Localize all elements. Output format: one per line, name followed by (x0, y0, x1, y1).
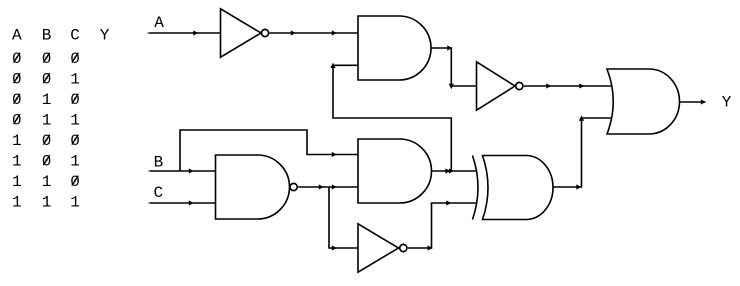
wire NOT3 out to XOR bottom input (408, 203, 477, 248)
wire A input (148, 32, 221, 34)
truth table header (12, 27, 110, 212)
arrow on wire A (193, 30, 198, 35)
svg-text:1: 1 (70, 194, 80, 212)
svg-text:1: 1 (12, 173, 22, 191)
svg-text:B: B (154, 153, 164, 171)
wire NAND out to AND2 bottom input (298, 186, 358, 188)
inverter NOT1 (221, 9, 262, 57)
arrow on AND1 out (447, 45, 452, 50)
svg-text:1: 1 (12, 194, 22, 212)
arrow on NOT1 out (2) (332, 30, 337, 35)
inverter NOT3 (358, 224, 399, 272)
svg-text:1: 1 (12, 153, 22, 171)
zero slashes (14, 53, 79, 186)
or gate body (607, 69, 679, 134)
svg-text:B: B (42, 27, 52, 45)
arrow on NOT2 out (1) (546, 83, 551, 88)
svg-text:1: 1 (70, 153, 80, 171)
svg-text:Y: Y (722, 93, 732, 111)
arrow into NOT3 (332, 245, 337, 250)
svg-text:0: 0 (42, 153, 52, 171)
wire NOT2 out to OR top input (524, 85, 612, 87)
arrow up on XOR-out vertical (579, 115, 584, 120)
wire OR out to Y (679, 101, 706, 103)
svg-text:0: 0 (12, 71, 22, 89)
svg-text:0: 0 (12, 50, 22, 68)
arrow on AND2 out (2) (449, 168, 454, 173)
svg-text:1: 1 (42, 194, 52, 212)
svg-text:1: 1 (42, 112, 52, 130)
nand gate NAND1 bubble (290, 183, 297, 190)
inverter NOT2 (477, 62, 516, 110)
arrow on OR out (701, 99, 706, 104)
xor gate body (483, 156, 554, 220)
svg-text:C: C (70, 27, 80, 45)
wire NAND out branch to NOT3 (329, 187, 358, 248)
arrow on AND2 out (1) (445, 168, 450, 173)
svg-text:C: C (153, 184, 163, 202)
arrow on NOT2 out (2) (579, 83, 584, 88)
arrow on wire C (189, 200, 194, 205)
svg-text:0: 0 (70, 173, 80, 191)
wire B input (149, 170, 216, 172)
svg-text:0: 0 (42, 132, 52, 150)
svg-text:1: 1 (70, 71, 80, 89)
wire NOT1 output to AND1 (270, 32, 359, 34)
arrow up on feedback vertical (330, 63, 335, 68)
svg-text:0: 0 (12, 112, 22, 130)
and gate AND2 (358, 139, 432, 203)
arrow on NOT3 out (428, 245, 433, 250)
nand gate NAND1 body (216, 155, 290, 219)
svg-text:0: 0 (70, 91, 80, 109)
svg-text:1: 1 (12, 132, 22, 150)
svg-text:Y: Y (100, 27, 110, 45)
svg-text:1: 1 (70, 112, 80, 130)
arrow on B branch into AND2 (332, 152, 337, 157)
arrow on XOR out (576, 184, 581, 189)
wire C input (149, 202, 216, 204)
svg-text:0: 0 (12, 91, 22, 109)
arrow into XOR bottom (446, 200, 451, 205)
svg-text:1: 1 (42, 173, 52, 191)
gray wire start ticks (147, 32, 150, 204)
svg-text:0: 0 (42, 50, 52, 68)
wire B branch to AND2 top input (180, 130, 358, 171)
wire direction arrows (189, 30, 706, 250)
svg-text:0: 0 (70, 132, 80, 150)
svg-text:1: 1 (42, 91, 52, 109)
wire feedback AND2 out to AND1 bottom input (333, 65, 451, 171)
svg-text:0: 0 (70, 50, 80, 68)
arrow on NAND out (2) (332, 184, 337, 189)
xor gate outer arc (473, 156, 479, 220)
arrow on wire B (189, 168, 194, 173)
svg-text:A: A (12, 27, 22, 45)
arrow on NAND out (1) (319, 184, 324, 189)
wire AND1 out to NOT2 (431, 48, 477, 86)
arrow on NOT1 out (1) (291, 30, 296, 35)
arrow down on AND1-out vertical (449, 84, 454, 89)
svg-text:0: 0 (42, 71, 52, 89)
and gate AND1 (358, 16, 431, 80)
wire AND2 out to XOR top input (432, 170, 477, 172)
svg-text:A: A (154, 14, 164, 32)
wire XOR out to OR bottom input (553, 118, 612, 187)
